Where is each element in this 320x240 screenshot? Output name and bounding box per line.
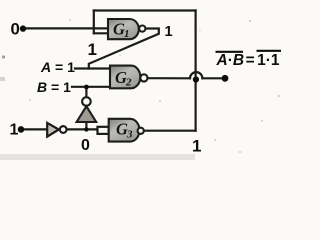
wire G2 output <box>148 77 190 79</box>
svg-text:1: 1 <box>124 28 130 40</box>
wire G3 output <box>144 130 196 132</box>
wire bottom input to NOT gate <box>21 128 47 130</box>
svg-text:B = 1: B = 1 <box>37 79 71 95</box>
inverter up-pointing to B <box>77 97 97 122</box>
node junction dot at crossing <box>193 76 199 82</box>
overline over 1·1 <box>257 50 282 52</box>
nand gate G1 <box>108 19 145 40</box>
wire B input <box>72 86 111 88</box>
svg-text:A = 1: A = 1 <box>40 59 75 75</box>
wire feedback left vertical <box>93 11 95 34</box>
svg-text:1: 1 <box>10 122 19 139</box>
svg-text:1: 1 <box>192 137 201 156</box>
wire feedback top edge <box>94 9 196 11</box>
wire to output terminal <box>202 77 224 79</box>
wire G1 lower input stub <box>94 32 108 34</box>
wire feedback right vertical <box>195 11 197 131</box>
svg-text:A·B=1·1: A·B=1·1 <box>216 52 280 69</box>
wire hop over feedback line <box>190 72 202 78</box>
svg-text:0: 0 <box>81 137 90 154</box>
wire A input <box>75 67 111 69</box>
wire NOT output to G3 <box>67 128 98 130</box>
inverter NOT gate bottom left <box>47 123 66 137</box>
label output expression A·B = 1·1 <box>216 51 282 69</box>
node junction dot bottom wire <box>84 127 88 131</box>
nand gate G3 <box>109 119 144 142</box>
node dot input 1 bottom <box>18 126 25 133</box>
svg-text:1: 1 <box>88 40 97 59</box>
node dot input 0 <box>20 25 26 31</box>
wire inverter up column bottom <box>85 122 87 129</box>
svg-text:2: 2 <box>125 77 132 89</box>
svg-text:3: 3 <box>126 129 133 141</box>
svg-text:1: 1 <box>165 24 173 40</box>
svg-text:0: 0 <box>11 20 20 39</box>
overline over A·B <box>216 51 244 53</box>
wire input 0 <box>23 27 108 29</box>
node junction dot B wire <box>84 85 89 90</box>
nand gate G2 <box>110 66 147 89</box>
wire G3 tied-input loop <box>98 127 109 134</box>
wire G1 output to A node <box>89 29 159 69</box>
node output terminal dot <box>222 75 229 82</box>
wire inverter up column top <box>85 87 87 98</box>
